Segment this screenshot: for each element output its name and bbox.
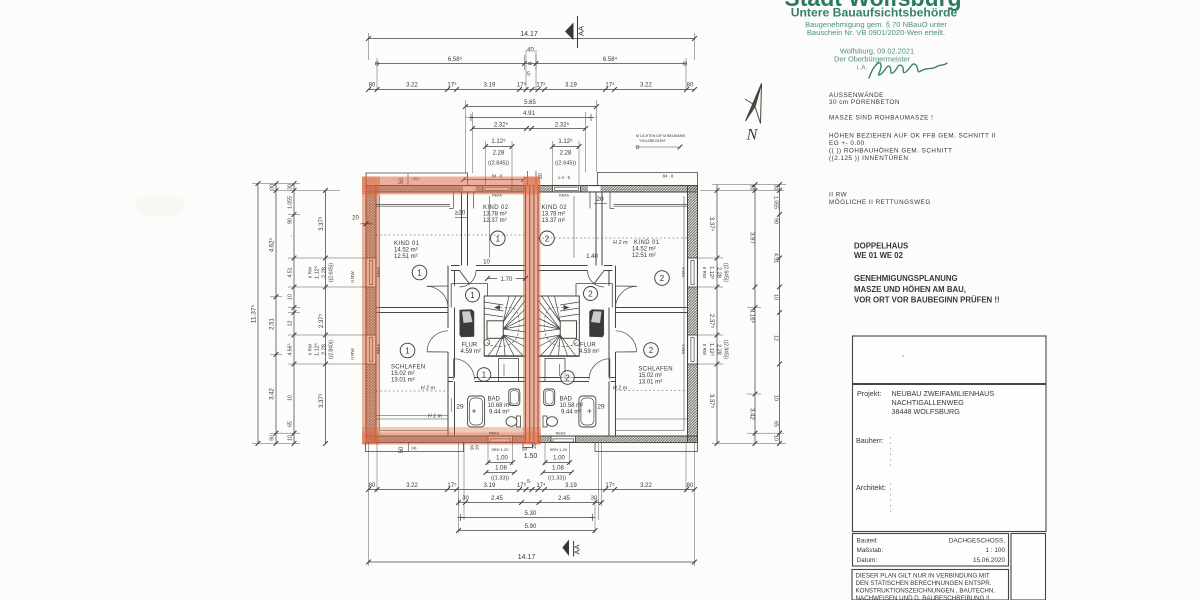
svg-text:3.37³: 3.37³: [319, 217, 325, 231]
svg-text:(a): (a): [412, 445, 418, 450]
svg-text:14.17: 14.17: [518, 554, 536, 561]
svg-text:DIESER PLAN GILT NUR IN VERBIN: DIESER PLAN GILT NUR IN VERBINDUNG MIT: [856, 573, 990, 580]
svg-text:BAD: BAD: [560, 397, 573, 403]
knee line along side wall: [379, 196, 381, 431]
title block header divider: [853, 383, 1047, 385]
svg-text:II RW: II RW: [702, 267, 707, 279]
svg-text:M LICHTEN DIF M BEUMANN: M LICHTEN DIF M BEUMANN: [636, 134, 686, 138]
svg-text:Projekt:: Projekt:: [857, 389, 881, 398]
svg-text:30: 30: [591, 496, 597, 502]
outer wall left (hatched): [366, 186, 376, 443]
svg-text:12.51 m²: 12.51 m²: [394, 254, 418, 260]
svg-text:H 1 m: H 1 m: [428, 414, 443, 420]
svg-text:12: 12: [773, 335, 779, 341]
svg-text:DOPPELHAUS: DOPPELHAUS: [854, 242, 908, 251]
lintel gap above partition: [463, 186, 476, 192]
svg-text:Architekt:: Architekt:: [856, 483, 886, 492]
svg-text:REKA: REKA: [559, 194, 569, 198]
svg-text:9.44 m²: 9.44 m²: [489, 410, 509, 416]
svg-text:2: 2: [660, 274, 665, 283]
svg-text:NACHWEISEN UND D. BAUBESCHREIB: NACHWEISEN UND D. BAUBESCHREIBUNG !!: [856, 595, 990, 600]
H2m dashed SCHLAFEN left: [376, 390, 448, 392]
svg-text:2.32⁵: 2.32⁵: [555, 122, 570, 129]
toilet: [517, 416, 521, 427]
svg-text:3.97: 3.97: [749, 232, 755, 244]
svg-text:MASZE UND HÖHEN AM BAU,: MASZE UND HÖHEN AM BAU,: [854, 285, 966, 294]
svg-text:REKA: REKA: [489, 431, 499, 435]
highlight bottom wall: [362, 427, 541, 445]
svg-text:90°: 90°: [522, 447, 529, 452]
dim 30/2.45 row: [459, 502, 602, 504]
svg-text:17⁵: 17⁵: [447, 482, 457, 489]
highlight left wall: [362, 177, 380, 445]
svg-text:2.37⁵: 2.37⁵: [708, 314, 715, 329]
section marker AA top: [565, 23, 574, 41]
highlight party wall: [523, 177, 541, 445]
svg-text:12: 12: [288, 321, 294, 327]
svg-text:10: 10: [773, 435, 779, 441]
svg-text:1.12⁵: 1.12⁵: [314, 266, 321, 279]
svg-text:12.37 m²: 12.37 m²: [483, 218, 507, 224]
svg-text:3.19: 3.19: [484, 83, 496, 89]
dim 5.65: [466, 106, 597, 108]
svg-text:4.51: 4.51: [288, 267, 294, 277]
svg-text:FLUR: FLUR: [580, 343, 596, 349]
svg-text:20: 20: [596, 196, 604, 203]
FLUR boundary lines: [451, 283, 487, 285]
svg-text:GENEHMIGUNGSPLANUNG: GENEHMIGUNGSPLANUNG: [854, 274, 958, 283]
svg-text:((2.125 )) INNENTÜREN: ((2.125 )) INNENTÜREN: [829, 154, 908, 162]
svg-text:4.91: 4.91: [523, 111, 535, 117]
svg-text:((2.645)): ((2.645)): [329, 263, 335, 283]
svg-text:2: 2: [545, 234, 550, 243]
extension lines bottom: [368, 443, 370, 566]
svg-text:30 cm PORENBETON: 30 cm PORENBETON: [829, 99, 900, 106]
svg-text:4.51: 4.51: [773, 253, 779, 263]
svg-text:10.68 m²: 10.68 m²: [488, 403, 512, 409]
svg-text:((2.845)): ((2.845)): [488, 161, 509, 167]
svg-text:.40.: .40.: [525, 48, 535, 54]
svg-text:KIND 02: KIND 02: [542, 205, 568, 211]
bathtub: [468, 396, 485, 427]
svg-text:REKA: REKA: [556, 431, 566, 435]
left chain 2: [275, 184, 277, 444]
svg-text:17⁴: 17⁴: [536, 482, 546, 489]
svg-text:38448 WOLFSBURG: 38448 WOLFSBURG: [892, 407, 961, 416]
outer wall bottom (hatched): [366, 436, 698, 443]
svg-text:1.055: 1.055: [288, 196, 294, 209]
svg-text:3.22: 3.22: [640, 483, 652, 489]
svg-text:1: 1: [405, 347, 410, 356]
svg-text:15.02 m²: 15.02 m²: [639, 373, 663, 379]
svg-text:II RW: II RW: [308, 266, 313, 278]
svg-text:II RW: II RW: [350, 271, 355, 283]
wall KIND01/KIND02 partition: [461, 192, 463, 266]
party wall: [526, 186, 539, 443]
svg-text:17⁵: 17⁵: [517, 82, 527, 89]
svg-text:5.90: 5.90: [525, 524, 537, 530]
svg-text:11.37⁵: 11.37⁵: [251, 304, 258, 323]
svg-text:10: 10: [288, 395, 294, 401]
svg-text:Datum:: Datum:: [857, 557, 878, 564]
svg-text:2.32⁵: 2.32⁵: [494, 122, 509, 129]
svg-text:15.02 m²: 15.02 m²: [391, 371, 415, 377]
svg-text:13.78 m²: 13.78 m²: [542, 212, 566, 218]
circle 1 BAD: [477, 368, 491, 382]
svg-text:29: 29: [597, 404, 605, 411]
svg-text:3.22: 3.22: [640, 83, 652, 89]
circle 2 BAD: [561, 371, 575, 385]
dim 1.70 stairs left: [488, 277, 526, 279]
svg-text:10: 10: [288, 294, 294, 300]
svg-text:FLUR: FLUR: [462, 343, 478, 349]
title block outer: [853, 336, 1047, 532]
title block Bauteil box: [853, 534, 1009, 567]
svg-text:20: 20: [475, 445, 480, 451]
right chains horizontal extensions: [712, 184, 786, 186]
svg-text:VOR ORT VOR BAUBEGINN PRÜ: VOR ORT VOR BAUBEGINN PRÜFEN !!: [854, 296, 1000, 305]
door KIND02: [460, 271, 470, 285]
roof outline right: [598, 173, 698, 186]
svg-text:10: 10: [483, 260, 490, 266]
svg-text:HÖHEN BEZIEHEN AUF OK FFB: HÖHEN BEZIEHEN AUF OK FFB GEM. SCHNITT I…: [829, 132, 996, 140]
H2m dashed SCHLAFEN right: [616, 390, 688, 392]
circle 2 SCHLAFEN: [644, 343, 659, 358]
svg-text:1.12⁵: 1.12⁵: [491, 138, 506, 145]
washbasin: [509, 389, 520, 406]
svg-text:Untere Bauaufsichtsbehörde: Untere Bauaufsichtsbehörde: [791, 6, 958, 20]
knee wall line right unit: [614, 204, 688, 206]
H1m SCHLAFEN right: [616, 418, 688, 420]
left chains horizontal extensions: [252, 183, 300, 185]
svg-text:65: 65: [773, 421, 779, 427]
svg-text:REKA: REKA: [377, 344, 381, 354]
svg-text:Bauteil:: Bauteil:: [857, 538, 879, 545]
svg-text:≥20: ≥20: [455, 210, 466, 217]
svg-text:17⁴: 17⁴: [605, 82, 615, 89]
svg-text:1.08: 1.08: [552, 466, 564, 472]
svg-text:13.37 m²: 13.37 m²: [542, 218, 566, 224]
svg-text:80: 80: [687, 483, 694, 489]
circle 1 KIND01: [412, 265, 427, 280]
svg-text:10: 10: [288, 435, 294, 441]
party wall foot: [523, 443, 533, 448]
svg-text:3.37⁴: 3.37⁴: [708, 217, 715, 232]
svg-text:≥ 4 · 5: ≥ 4 · 5: [558, 175, 571, 180]
closet: [499, 359, 519, 382]
signature: [869, 63, 947, 78]
knee line along bottom wall: [380, 430, 449, 432]
svg-text:REKA: REKA: [682, 344, 686, 354]
circle 2 FLUR: [584, 287, 598, 301]
eaves outline bottom left: [366, 443, 464, 452]
svg-text:II RW: II RW: [829, 192, 847, 199]
svg-text:II RW: II RW: [350, 348, 355, 360]
circle 1 FLUR: [466, 288, 480, 302]
svg-text:(( )) ROHBAUHÖHEN GEM. SCH: (( )) ROHBAUHÖHEN GEM. SCHNITT: [829, 147, 952, 155]
chimney: [460, 310, 474, 338]
svg-text:MASZE SIND ROHBAUMASZE !: MASZE SIND ROHBAUMASZE !: [829, 115, 933, 122]
svg-text:3.22: 3.22: [406, 483, 418, 489]
svg-text:5.65: 5.65: [524, 100, 536, 106]
svg-text:2.37⁵: 2.37⁵: [318, 313, 325, 328]
dim 2.32 row: [473, 128, 586, 130]
svg-text:AUSSENWÄNDE: AUSSENWÄNDE: [829, 91, 884, 99]
svg-text:2: 2: [565, 374, 570, 383]
svg-text:DACHGESCHOSS,: DACHGESCHOSS,: [949, 538, 1005, 545]
door KIND01 (from FLUR): [427, 286, 448, 308]
wall hall-left / SCHLAFEN-BAD: [447, 266, 449, 329]
svg-text:14.52 m²: 14.52 m²: [632, 247, 656, 253]
svg-text:((2.645)): ((2.645)): [723, 263, 729, 283]
svg-text:SCHLAFEN: SCHLAFEN: [639, 367, 673, 373]
roof edge line in KIND02: [489, 196, 491, 258]
door SCHLAFEN: [427, 331, 448, 352]
svg-text:30: 30: [270, 184, 276, 190]
svg-text:3.42: 3.42: [270, 388, 276, 400]
svg-text:10: 10: [773, 395, 779, 401]
svg-text:1: 1: [482, 371, 487, 380]
wall KIND01 / SCHLAFEN: [376, 307, 448, 309]
circle 2 KIND01: [655, 271, 670, 286]
knee wall line left unit: [376, 204, 450, 206]
svg-text:90: 90: [749, 185, 755, 191]
svg-text:Bauherr:: Bauherr:: [856, 436, 884, 445]
svg-text:2: 2: [588, 290, 593, 299]
section marker AA bottom: [562, 540, 569, 557]
wall FLUR / BAD: [448, 377, 453, 379]
svg-text:1.70: 1.70: [501, 277, 513, 283]
svg-text:13.01 m²: 13.01 m²: [639, 380, 663, 386]
svg-text:2: 2: [649, 346, 654, 355]
svg-text:2.28: 2.28: [322, 344, 328, 355]
circle 1 KIND02: [491, 231, 506, 246]
svg-text:((1.33)): ((1.33)): [491, 476, 509, 482]
svg-text:BAD: BAD: [488, 397, 501, 403]
svg-text:MÖGLICHE II RETTUNGSWEG: MÖGLICHE II RETTUNGSWEG: [829, 198, 931, 206]
svg-text:4.62⁵: 4.62⁵: [269, 237, 276, 252]
svg-text:80: 80: [687, 83, 694, 89]
svg-text:17⁵: 17⁵: [536, 82, 546, 89]
svg-text:1: 1: [470, 291, 475, 300]
bottom chain row: [369, 489, 695, 491]
svg-text:i. A.: i. A.: [857, 65, 868, 72]
door BAD: [454, 359, 475, 380]
right chain 2: [754, 185, 756, 444]
stair walk line: [487, 308, 519, 347]
svg-text:3.37³: 3.37³: [319, 394, 325, 408]
stamp: Stadt Wolfsburg (cut off): [784, 0, 961, 11]
svg-text:SCHLAFEN: SCHLAFEN: [391, 365, 425, 371]
svg-text:WE 01 WE 02: WE 01 WE 02: [854, 251, 904, 260]
left chain 3: [293, 184, 295, 444]
circle 1 SCHLAFEN: [400, 343, 415, 358]
window bottom (BAD): [488, 436, 513, 443]
svg-text:II RW: II RW: [702, 344, 707, 356]
svg-text:30: 30: [288, 184, 294, 190]
svg-text:20: 20: [532, 443, 538, 449]
dim 5.30: [461, 517, 593, 519]
svg-text:15.06.2020: 15.06.2020: [973, 557, 1005, 564]
highlight top wall: [362, 177, 540, 195]
svg-text:90: 90: [288, 218, 294, 224]
svg-text:50: 50: [399, 446, 405, 453]
svg-text:3.16⁵: 3.16⁵: [749, 309, 756, 324]
svg-text:Maßstab:: Maßstab:: [857, 547, 884, 554]
svg-text:2.51: 2.51: [270, 318, 276, 330]
svg-text:6.58⁵: 6.58⁵: [448, 56, 463, 63]
svg-text:84 · 8: 84 · 8: [663, 174, 674, 179]
svg-text:((2.845)): ((2.845)): [723, 340, 729, 360]
svg-text:30: 30: [462, 496, 468, 502]
svg-text:1: 1: [417, 269, 422, 278]
extension lines top: [368, 33, 370, 60]
svg-text:REKA: REKA: [377, 267, 381, 277]
right chain 3: [779, 185, 781, 444]
svg-text:12.51 m²: 12.51 m²: [632, 253, 656, 259]
svg-text:65: 65: [288, 421, 294, 427]
svg-text:80: 80: [369, 83, 376, 89]
svg-text:20: 20: [352, 216, 359, 222]
H1m line SCHLAFEN left: [376, 418, 448, 420]
svg-text:1.12⁵: 1.12⁵: [558, 138, 573, 145]
window left upper (KIND 01): [366, 258, 376, 287]
dim 14.17 top: [369, 38, 695, 40]
party wall top marks: [527, 171, 529, 185]
svg-text:13.78 m²: 13.78 m²: [483, 212, 507, 218]
stair treads: [484, 302, 503, 305]
svg-text:Der Oberbürgermeister: Der Oberbürgermeister: [834, 55, 911, 64]
svg-text:2.28: 2.28: [322, 267, 328, 278]
wall KIND02 / hall: [451, 265, 460, 267]
svg-text:1.12⁵: 1.12⁵: [708, 343, 715, 356]
svg-text:3.37⁵: 3.37⁵: [708, 394, 715, 409]
svg-text:3.19: 3.19: [565, 483, 577, 489]
svg-text:1 : 100: 1 : 100: [985, 547, 1005, 554]
svg-text:((2.840)): ((2.840)): [329, 340, 335, 360]
svg-text:10: 10: [773, 294, 779, 300]
svg-text:..: ..: [288, 235, 294, 238]
outer wall right (hatched): [688, 186, 698, 443]
svg-text:90: 90: [270, 435, 276, 441]
svg-text:“HOLZBECKEN”: “HOLZBECKEN”: [639, 139, 667, 143]
title block right column: [1011, 534, 1046, 601]
window top (KIND 02): [483, 186, 511, 193]
svg-text:AA: AA: [573, 544, 582, 554]
svg-text:1.00: 1.00: [553, 456, 565, 462]
svg-text:1: 1: [496, 234, 501, 243]
svg-text:REKA: REKA: [682, 267, 686, 277]
svg-text:KONSTRUKTIONSZEICHNUNGEN , BAU: KONSTRUKTIONSZEICHNUNGEN , BAUTECHN.: [856, 588, 996, 595]
svg-text:KIND 01: KIND 01: [634, 240, 660, 246]
stair eye: [487, 321, 503, 339]
svg-text:4.59 m²: 4.59 m²: [461, 349, 481, 355]
svg-text:((1.33)): ((1.33)): [548, 476, 566, 482]
svg-text:2.45: 2.45: [558, 496, 570, 502]
title block notice box: [852, 570, 1009, 601]
svg-text:((2.645)): ((2.645)): [555, 161, 576, 167]
svg-text:1.12³: 1.12³: [708, 266, 714, 279]
dim 6.58 row: [376, 63, 686, 65]
svg-text:1.00: 1.00: [496, 456, 508, 462]
svg-text:NEUBAU ZWEIFAMILIENHAUS: NEUBAU ZWEIFAMILIENHAUS: [892, 389, 995, 398]
svg-text:2.28: 2.28: [493, 151, 505, 157]
H2m dashed line KIND01 left: [376, 234, 526, 236]
dim chain row top: [369, 89, 695, 91]
svg-text:6.58⁴: 6.58⁴: [603, 56, 618, 63]
stair box: [484, 296, 525, 356]
dim 14.17 bottom: [369, 561, 695, 563]
svg-text:1.40: 1.40: [586, 254, 598, 260]
svg-text:·5·: ·5·: [525, 479, 531, 485]
roof outline left: [366, 173, 468, 186]
roof window dashes at partition: [453, 192, 455, 209]
left chain 4 (windows): [325, 191, 327, 444]
outer wall top (hatched): [366, 186, 698, 193]
svg-text:3.19: 3.19: [565, 83, 577, 89]
dim 5.90: [459, 530, 596, 532]
svg-text:1.055: 1.055: [773, 196, 779, 209]
svg-text:H 2 m: H 2 m: [613, 240, 628, 246]
svg-text:17⁵: 17⁵: [605, 482, 615, 489]
svg-text:14.17: 14.17: [520, 31, 538, 38]
svg-text:3.42: 3.42: [749, 408, 755, 420]
left chain 11.37: [257, 184, 259, 444]
svg-text:29: 29: [456, 404, 464, 411]
svg-text:9RH 1.20: 9RH 1.20: [492, 447, 510, 452]
svg-text:9.44 m²: 9.44 m²: [561, 410, 581, 416]
svg-text:2.28: 2.28: [560, 151, 572, 157]
left unit interior: [366, 186, 526, 443]
window left lower (SCHLAFEN): [366, 335, 376, 364]
svg-text:4.66⁵: 4.66⁵: [288, 343, 294, 355]
svg-text:90: 90: [773, 218, 779, 224]
svg-text:3.19: 3.19: [484, 483, 496, 489]
svg-text:KIND 02: KIND 02: [483, 205, 509, 211]
svg-text:1.50: 1.50: [524, 453, 538, 460]
svg-text:10.58 m²: 10.58 m²: [560, 403, 584, 409]
roof mid line: [464, 179, 524, 181]
svg-text:14.52 m²: 14.52 m²: [394, 248, 418, 254]
svg-text:80: 80: [369, 483, 376, 489]
corridor under stairs: [484, 356, 525, 358]
circle 2 KIND02: [540, 231, 555, 246]
eaves outline bottom right: [595, 443, 698, 452]
svg-text:3.22: 3.22: [406, 83, 418, 89]
svg-text:EG +- 0.00: EG +- 0.00: [829, 140, 865, 147]
svg-text:30: 30: [773, 185, 779, 191]
svg-text:13.01 m²: 13.01 m²: [391, 378, 415, 384]
svg-text:H 2 m: H 2 m: [421, 386, 436, 392]
right chain windows: [716, 185, 718, 444]
north arrow: [746, 84, 762, 122]
svg-text:4.59 m²: 4.59 m²: [579, 349, 599, 355]
svg-text:17⁵: 17⁵: [447, 82, 457, 89]
right unit interior (mirrored): [538, 186, 698, 443]
svg-text:2.28: 2.28: [716, 344, 722, 355]
H2m dashed line KIND01 right: [538, 237, 688, 239]
svg-text:II RW: II RW: [308, 343, 313, 355]
svg-text:KIND 01: KIND 01: [394, 241, 420, 247]
svg-text:9RH 1.20: 9RH 1.20: [550, 447, 568, 452]
svg-text:1.08: 1.08: [495, 466, 507, 472]
svg-text:NACHTIGALLENWEG: NACHTIGALLENWEG: [892, 398, 965, 407]
svg-text:Bauschein Nr. VB 0901/2020-Wen: Bauschein Nr. VB 0901/2020-Wen erteilt.: [807, 28, 945, 37]
svg-text:REKA: REKA: [492, 194, 502, 198]
svg-text:5.30: 5.30: [525, 511, 537, 517]
svg-text:1.12⁵: 1.12⁵: [314, 343, 321, 356]
svg-text:DEN STATISCHEN BERECHNUNGEN EN: DEN STATISCHEN BERECHNUNGEN ENTSPR.: [856, 580, 992, 587]
